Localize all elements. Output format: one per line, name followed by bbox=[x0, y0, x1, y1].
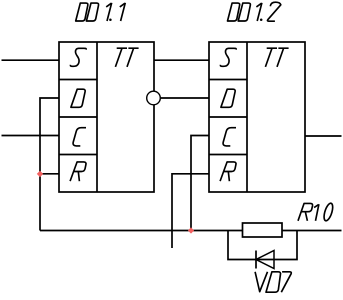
wire S input DD1.1 bbox=[2, 59, 60, 61]
wire C input DD1.2 down to bus junction bbox=[191, 136, 209, 231]
wire C input DD1.1 bbox=[2, 135, 60, 137]
designator dot (DD1.1) bbox=[109, 19, 112, 22]
junction dot at bus / C2 wire bbox=[188, 227, 194, 233]
pin label R (DD1.1) bbox=[70, 162, 86, 181]
value label R10 bbox=[298, 203, 333, 221]
pin label S (DD1.1) bbox=[70, 48, 86, 66]
junction dot at R input tap bbox=[37, 171, 43, 177]
wire inverted output DD1.1 to D input DD1.2 bbox=[161, 97, 209, 99]
flip-flop DD1.2 box bbox=[209, 42, 305, 192]
designator label DD1.2 bbox=[228, 2, 281, 21]
pin label R (DD1.2) bbox=[220, 162, 236, 181]
pin label C (DD1.1) bbox=[73, 128, 86, 146]
pin label D (DD1.2) bbox=[221, 89, 235, 107]
wire R input DD1.1 bbox=[40, 173, 59, 175]
wire bottom bus bbox=[40, 230, 342, 232]
pin label D (DD1.1) bbox=[71, 89, 85, 107]
flip-flop DD1.1 box bbox=[59, 42, 154, 192]
function label TT (DD1.1) bbox=[115, 48, 138, 67]
inverter circle on DD1.1 output bbox=[147, 91, 161, 105]
wire diode branch bbox=[228, 231, 297, 260]
function label TT (DD1.2) bbox=[265, 48, 288, 67]
designator label DD1.1 bbox=[76, 3, 126, 21]
wire output DD1.2 bbox=[305, 135, 342, 137]
wire R input DD1.2 down past bus stub bbox=[172, 174, 209, 248]
wire Q output DD1.1 to S input DD1.2 bbox=[154, 59, 209, 61]
wire D input DD1.1 down to bottom bus bbox=[40, 98, 59, 231]
designator dot (DD1.2) bbox=[260, 19, 263, 22]
pin label C (DD1.2) bbox=[223, 128, 236, 146]
pin label S (DD1.2) bbox=[220, 48, 236, 66]
diode VD7 bbox=[256, 251, 274, 269]
designator label VD7 bbox=[255, 272, 291, 292]
resistor R10 bbox=[243, 223, 283, 237]
